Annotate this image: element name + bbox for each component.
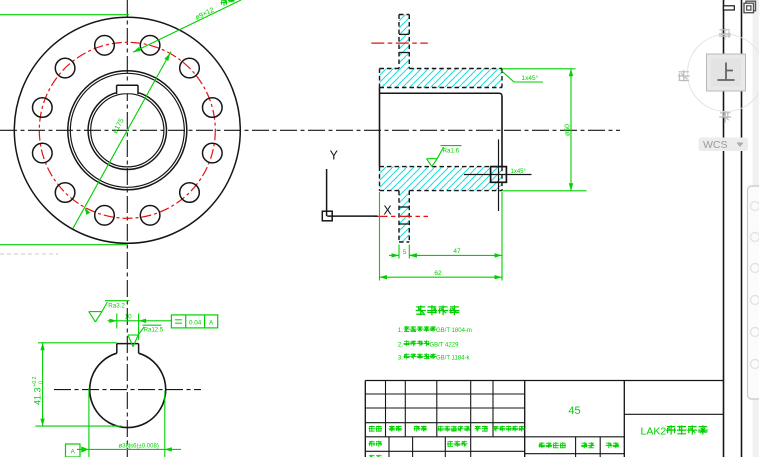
svg-text:62: 62 [434, 270, 442, 277]
svg-text:LAK2: LAK2 [641, 426, 667, 438]
svg-text:GB/T 1184-k: GB/T 1184-k [436, 355, 470, 361]
svg-text:1x45°: 1x45° [522, 74, 539, 82]
svg-text:0: 0 [38, 381, 44, 384]
svg-text:Ra12.5: Ra12.5 [144, 327, 164, 333]
svg-text:41.3: 41.3 [32, 387, 42, 405]
svg-text:0.04: 0.04 [189, 319, 202, 326]
svg-text:47: 47 [453, 248, 461, 255]
svg-text:3.: 3. [398, 354, 404, 361]
svg-text:A: A [71, 449, 76, 456]
svg-text:Ra3.2: Ra3.2 [108, 303, 125, 310]
svg-text:ø38js6(±0.008): ø38js6(±0.008) [119, 444, 159, 450]
svg-text:1.: 1. [398, 327, 404, 334]
svg-text:1x45°: 1x45° [511, 169, 527, 175]
svg-text:5: 5 [403, 249, 407, 256]
svg-text:ø50: ø50 [564, 124, 571, 136]
svg-text:GB/T 4229: GB/T 4229 [430, 342, 460, 348]
svg-text:45: 45 [568, 405, 580, 417]
svg-text:X: X [383, 203, 392, 217]
svg-text:+0.2: +0.2 [32, 376, 38, 386]
svg-text:2.: 2. [398, 341, 404, 348]
svg-text:10: 10 [124, 313, 132, 320]
svg-text:Y: Y [330, 149, 339, 163]
svg-text:WCS: WCS [703, 139, 728, 151]
svg-text:Ra1.6: Ra1.6 [443, 148, 460, 155]
svg-text:GB/T 1804-m: GB/T 1804-m [436, 328, 472, 334]
